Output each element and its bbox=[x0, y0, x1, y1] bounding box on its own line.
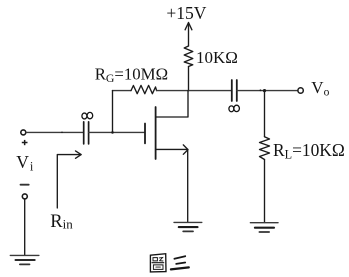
label infinity (output cap) bbox=[229, 105, 240, 112]
terminal input + bbox=[21, 130, 26, 135]
圖 middle horizontal bbox=[152, 262, 164, 264]
三 middle stroke bbox=[176, 263, 185, 264]
node RG lead joins input wire bbox=[111, 131, 114, 134]
ground under source bbox=[174, 222, 202, 231]
transistor Q1 source tap with arrow bbox=[156, 145, 188, 154]
transistor Q1 drain tap bbox=[156, 91, 188, 117]
node small speck on input wire bbox=[61, 132, 63, 134]
wire input minus terminal to ground bbox=[24, 199, 26, 255]
svg-text:+15V: +15V bbox=[166, 3, 206, 23]
transistor Q1 gate bar bbox=[144, 124, 146, 144]
svg-text:Vi: Vi bbox=[16, 152, 34, 174]
node output junction bbox=[263, 89, 266, 92]
圖 inner bottom dash bbox=[156, 266, 161, 268]
terminal input - bbox=[22, 194, 27, 199]
wire drain-resistor to node bbox=[188, 67, 190, 91]
label infinity (input cap) bbox=[82, 112, 93, 119]
圖 inner top diagonal bbox=[159, 258, 163, 262]
minus sign of Vi bbox=[21, 184, 29, 186]
caption 圖三 (Figure 3) drawn strokes bbox=[150, 254, 188, 272]
ground under RL bbox=[250, 223, 278, 232]
terminal Vo bbox=[298, 88, 303, 93]
三 top stroke bbox=[174, 256, 185, 259]
wire RG right lead to drain node bbox=[157, 90, 189, 92]
capacitor input, infinity bbox=[84, 122, 89, 144]
resistor RL=10K bbox=[260, 137, 270, 160]
svg-text:Rin: Rin bbox=[50, 212, 73, 232]
圖 inner bottom box bbox=[153, 265, 163, 270]
圖 outer box bbox=[150, 254, 166, 272]
svg-text:10KΩ: 10KΩ bbox=[196, 48, 238, 67]
wire input terminal to cap bbox=[26, 131, 84, 133]
+15V supply arrow bbox=[185, 23, 192, 47]
transistor Q1 channel bar bbox=[155, 107, 157, 159]
wire output cap to Vo terminal bbox=[237, 90, 298, 92]
三 bottom stroke bbox=[171, 267, 189, 269]
svg-text:Vo: Vo bbox=[311, 78, 329, 99]
wire RG left lead down to gate wire bbox=[112, 91, 114, 133]
ground input bbox=[10, 255, 39, 264]
arrow Rin measurement bbox=[57, 151, 81, 208]
wire RL to ground bbox=[264, 160, 266, 223]
wire cap to gate bbox=[89, 131, 145, 133]
wire output node down to RL bbox=[264, 91, 266, 137]
svg-text:RG=10MΩ: RG=10MΩ bbox=[95, 64, 168, 85]
svg-text:RL=10KΩ: RL=10KΩ bbox=[273, 140, 345, 162]
resistor RG=10M (feedback) bbox=[113, 85, 157, 93]
圖 inner top mouth bbox=[153, 258, 157, 261]
label + (input polarity) bbox=[22, 140, 28, 145]
wire source down to ground bbox=[187, 149, 189, 222]
resistor 10K (drain) bbox=[184, 46, 193, 67]
wire drain node to output cap bbox=[189, 90, 232, 92]
capacitor output, infinity bbox=[232, 80, 237, 101]
